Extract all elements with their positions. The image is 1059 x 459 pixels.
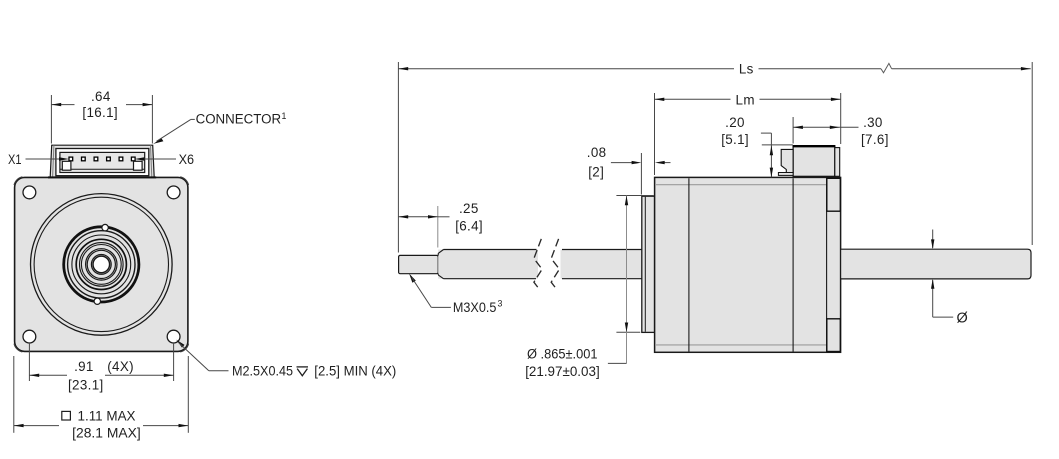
corner hole bottom-left bbox=[23, 330, 36, 343]
svg-text:Ø: Ø bbox=[957, 311, 968, 327]
svg-text:.64: .64 bbox=[91, 89, 111, 104]
dimension Ls bbox=[398, 62, 1032, 253]
side connector main box bbox=[793, 146, 836, 176]
corner hole top-left bbox=[23, 186, 36, 199]
svg-text:M3X0.5: M3X0.5 bbox=[453, 300, 497, 315]
svg-text:X6: X6 bbox=[179, 152, 195, 167]
pin 2 bbox=[82, 157, 86, 161]
svg-text:Ls: Ls bbox=[739, 62, 754, 77]
label M2.5X0.45 depth [2.5] MIN (4X) bbox=[176, 340, 396, 379]
svg-text:.08: .08 bbox=[587, 145, 607, 160]
motor body side bbox=[655, 177, 841, 352]
rear mounting tab top bbox=[827, 178, 841, 211]
svg-text:.20: .20 bbox=[725, 115, 745, 130]
side connector right strip bbox=[835, 148, 840, 177]
svg-text:3: 3 bbox=[498, 299, 503, 309]
dimension .08 [2] bbox=[587, 145, 671, 194]
dimension Lm bbox=[655, 92, 841, 175]
corner hole bottom-right bbox=[167, 330, 180, 343]
dimension diameter .865 bbox=[525, 196, 654, 380]
dimension diameter symbol right shaft bbox=[931, 230, 968, 327]
pin 6 bbox=[131, 157, 135, 161]
svg-text:[28.1 MAX]: [28.1 MAX] bbox=[72, 426, 141, 441]
label X1 bbox=[8, 152, 69, 167]
connector outer shell (front view) bbox=[50, 145, 154, 177]
svg-text:[2.5] MIN (4X): [2.5] MIN (4X) bbox=[314, 364, 396, 379]
svg-text:1.11 MAX: 1.11 MAX bbox=[78, 408, 136, 423]
dimension .25 [6.4] bbox=[398, 201, 483, 248]
svg-text:.91: .91 bbox=[74, 359, 94, 374]
label M3X0.5 bbox=[409, 274, 502, 315]
svg-text:[16.1]: [16.1] bbox=[82, 105, 118, 120]
retainer screw hole top bbox=[102, 224, 108, 230]
pin 1 bbox=[69, 157, 73, 161]
latch tab right bbox=[134, 161, 143, 170]
screw shaft tip (M3 end) bbox=[399, 255, 439, 273]
center shaft hole bbox=[91, 255, 111, 275]
label X6 bbox=[135, 152, 194, 167]
break zigzag right bbox=[551, 239, 559, 290]
connector cavity bbox=[60, 152, 145, 172]
dimension .64 [16.1] bbox=[51, 89, 152, 144]
flange body bbox=[14, 177, 189, 352]
corner hole top-right bbox=[167, 186, 180, 199]
svg-text:Lm: Lm bbox=[736, 92, 755, 107]
dimension 1.11 MAX [28.1 MAX] bbox=[14, 356, 189, 441]
lead screw right section bbox=[561, 250, 643, 279]
retainer screw hole bottom bbox=[94, 298, 100, 304]
svg-text:CONNECTOR: CONNECTOR bbox=[196, 111, 282, 126]
connector housing rect bbox=[56, 149, 149, 176]
output shaft right bbox=[841, 249, 1031, 279]
dimension .20 [5.1] bbox=[721, 115, 793, 177]
svg-text:[5.1]: [5.1] bbox=[721, 132, 749, 147]
label CONNECTOR1 bbox=[153, 111, 286, 144]
side connector left step bbox=[778, 149, 793, 175]
dimension .91 (4X) [23.1] bbox=[29, 343, 173, 393]
svg-text:1: 1 bbox=[282, 111, 287, 121]
pin 3 bbox=[94, 157, 98, 161]
svg-text:[6.4]: [6.4] bbox=[455, 219, 483, 234]
pin 4 bbox=[107, 157, 111, 161]
svg-text:X1: X1 bbox=[8, 152, 22, 167]
bearing retainer rings bbox=[64, 227, 139, 302]
pin 5 bbox=[119, 157, 123, 161]
svg-text:[7.6]: [7.6] bbox=[861, 132, 889, 147]
pilot boss side bbox=[642, 196, 655, 332]
latch tab left bbox=[62, 161, 71, 170]
svg-text:(4X): (4X) bbox=[107, 359, 134, 374]
lead screw left section bbox=[438, 250, 538, 279]
svg-text:[2]: [2] bbox=[588, 165, 604, 180]
svg-text:M2.5X0.45: M2.5X0.45 bbox=[232, 364, 293, 379]
dimension .30 [7.6] bbox=[793, 115, 889, 147]
svg-text:.25: .25 bbox=[459, 201, 479, 216]
flange top edge under connector bbox=[48, 176, 156, 178]
svg-text:Ø .865±.001: Ø .865±.001 bbox=[527, 347, 598, 362]
rear mounting tab bottom bbox=[827, 319, 841, 352]
pilot boss circles bbox=[31, 194, 173, 336]
break zigzag left bbox=[534, 239, 542, 290]
svg-text:[21.97±0.03]: [21.97±0.03] bbox=[525, 364, 600, 379]
svg-text:[23.1]: [23.1] bbox=[68, 378, 104, 393]
svg-text:.30: .30 bbox=[863, 115, 883, 130]
